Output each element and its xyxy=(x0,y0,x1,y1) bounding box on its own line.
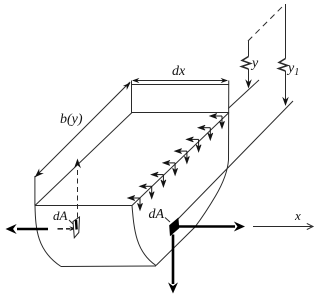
label y1 xyxy=(288,61,299,78)
dashed y line through left dA xyxy=(77,170,79,218)
left dA leader tick xyxy=(69,220,73,224)
shear stress arrow pair 6 xyxy=(186,137,201,152)
back wall right vertical xyxy=(228,81,230,161)
back wall left vertical xyxy=(131,81,133,113)
x axis arrowhead xyxy=(307,223,313,229)
bold left arrowhead xyxy=(6,224,17,234)
top face back edge xyxy=(131,112,229,114)
dashed beam top line xyxy=(248,4,285,41)
shear stress arrow pair 5 xyxy=(175,149,190,164)
top face right edge (shear cut line) xyxy=(132,113,229,206)
b(y) top arrowhead xyxy=(123,80,133,90)
shear stress arrow pair 7 xyxy=(198,125,213,140)
arrowhead into left dA patch xyxy=(69,226,76,231)
label dA left xyxy=(53,208,67,224)
x axis line xyxy=(253,226,312,228)
right dA area patch xyxy=(170,219,179,236)
bold left force arrow shaft xyxy=(17,228,48,231)
label b(y) xyxy=(60,112,83,128)
label y xyxy=(252,56,258,72)
b(y) bottom arrowhead xyxy=(33,168,44,179)
right dA leader tick xyxy=(165,218,170,223)
shear stress arrow pair 3 xyxy=(151,172,166,187)
b(y) dimension line xyxy=(35,82,130,177)
dx dimension line xyxy=(133,80,227,82)
y down arrowhead xyxy=(245,79,252,88)
back wall top edge xyxy=(132,84,230,86)
left dA area patch xyxy=(73,217,80,238)
up arrowhead of dashed y line xyxy=(74,159,81,169)
bold right force arrow shaft xyxy=(177,225,235,228)
bold down force arrow shaft xyxy=(172,235,175,285)
bold down arrowhead xyxy=(168,282,178,293)
left section left curve xyxy=(35,206,61,267)
y dimension line xyxy=(248,41,250,86)
top face left edge xyxy=(35,113,132,206)
right section silhouette curve xyxy=(156,160,229,266)
bottom edge xyxy=(61,265,156,268)
bold right arrowhead xyxy=(234,222,245,232)
label dx xyxy=(172,64,185,80)
y1 down arrowhead xyxy=(282,97,289,106)
y break zigzag xyxy=(242,57,251,70)
shear stress arrow pair 4 xyxy=(163,160,178,175)
top face front edge xyxy=(35,205,132,207)
neutral axis line xyxy=(178,101,293,219)
shear stress arrow pair 2 xyxy=(140,184,155,199)
label x xyxy=(295,208,301,224)
dx right arrowhead xyxy=(221,78,228,83)
dx left arrowhead xyxy=(132,78,139,83)
label dA right xyxy=(149,207,165,223)
y extension line xyxy=(228,80,259,109)
b(y) extension line xyxy=(34,176,36,206)
left section right curve xyxy=(132,206,156,266)
y1 dimension line xyxy=(285,4,287,104)
shear stress arrow pair 1 xyxy=(128,196,143,211)
shear stress arrow pair 8 xyxy=(210,114,225,129)
dashed sigma-dA line at left face xyxy=(58,228,71,230)
y1 break zigzag xyxy=(279,59,288,72)
